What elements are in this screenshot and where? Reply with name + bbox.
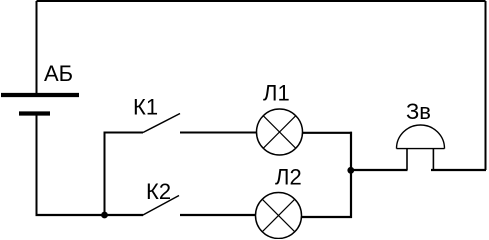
wire K1 row left horizontal — [104, 132, 144, 134]
wire bell right leg to right vertical — [431, 169, 486, 171]
wire top horizontal — [37, 0, 486, 2]
bell Зв label — [406, 99, 431, 124]
battery АБ label — [44, 61, 73, 86]
wire battery negative lead vertical — [36, 116, 38, 217]
bell Зв — [397, 125, 445, 170]
wire bottom horizontal (battery to switch K2) — [36, 214, 144, 216]
svg-text:Л2: Л2 — [275, 165, 302, 190]
lamp Л1 — [257, 109, 303, 155]
wire lamp L1 to right bus — [303, 132, 353, 134]
switch К1 — [143, 114, 180, 133]
svg-text:К1: К1 — [133, 95, 158, 120]
wire junction to bell left leg — [351, 169, 408, 171]
node junction dot right bus — [347, 167, 354, 174]
battery АБ — [1, 95, 79, 114]
node junction dot bottom branch — [101, 212, 108, 219]
svg-text:АБ: АБ — [44, 61, 73, 86]
wire K2 to lamp L2 — [180, 214, 256, 216]
wire left vertical (battery positive lead) — [36, 1, 38, 93]
switch К1 label — [133, 95, 158, 120]
lamp Л1 label — [263, 81, 290, 106]
wire right bus vertical (L1 to L2) — [350, 132, 352, 218]
svg-text:К2: К2 — [146, 179, 171, 204]
wire K1 to lamp L1 — [180, 132, 257, 134]
switch К2 — [142, 196, 179, 216]
wire K1 branch vertical — [104, 133, 106, 216]
wire lamp L2 to right bus — [302, 216, 353, 218]
svg-text:Л1: Л1 — [263, 81, 290, 106]
svg-text:Зв: Зв — [406, 99, 431, 124]
lamp Л2 — [256, 193, 302, 239]
lamp Л2 label — [275, 165, 302, 190]
switch К2 label — [146, 179, 171, 204]
wire right vertical — [485, 1, 487, 170]
